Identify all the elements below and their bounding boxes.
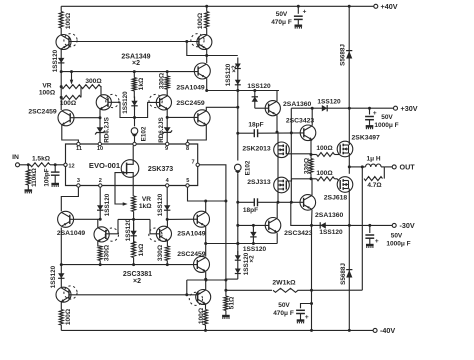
svg-text:+: + <box>303 9 307 16</box>
wire 2SA1360 base <box>255 107 269 109</box>
svg-text:×2: ×2 <box>231 65 238 73</box>
wire y243.5 branch <box>206 242 278 245</box>
svg-text:1SS120: 1SS120 <box>50 265 57 288</box>
resistor 1kohm center-bottom <box>132 242 145 265</box>
svg-text:50V: 50V <box>381 114 393 121</box>
svg-text:+: + <box>375 238 379 245</box>
svg-text:4.7Ω: 4.7Ω <box>367 182 381 189</box>
wire 2SK373 gate <box>115 173 128 206</box>
capacitor 1000uF +30V <box>365 108 377 125</box>
wire 2SA1049R2 collector <box>204 200 207 213</box>
terminal -40V <box>373 326 395 335</box>
transistor cascode right <box>149 94 171 110</box>
label S5688J bottom <box>340 263 347 285</box>
wire 2SC2459LR collector <box>204 272 207 290</box>
wire 2SC2459R emitter to pin8 <box>188 125 207 142</box>
svg-text:+30V: +30V <box>401 104 418 113</box>
resistor 4.7ohm <box>362 167 384 189</box>
svg-text:E102: E102 <box>244 160 251 175</box>
svg-text:2SC3381: 2SC3381 <box>123 271 152 278</box>
svg-text:RD6.2JS: RD6.2JS <box>104 117 111 143</box>
resistor 1kohm center-top <box>132 72 145 98</box>
svg-text:8: 8 <box>186 146 189 152</box>
resistor 2W1kohm <box>226 279 362 292</box>
transistor 2SC2459 (upper right) <box>176 100 210 126</box>
svg-text:+: + <box>373 110 377 117</box>
IC pin 12 <box>64 163 75 169</box>
wire 1360L collector <box>311 179 313 195</box>
terminal +40V <box>374 2 398 11</box>
IC pin E102 <box>133 142 136 145</box>
wire K2013 drain <box>277 132 279 146</box>
transistor 2SA1360 upper <box>265 101 311 116</box>
svg-text:300Ω: 300Ω <box>85 78 102 85</box>
wire 2SA1049R collector <box>205 78 208 92</box>
label 1SS120 +30V <box>317 99 341 106</box>
wire to K3497 gate <box>335 154 340 156</box>
wire 300 to cascode collector <box>100 87 102 95</box>
svg-text:-30V: -30V <box>400 221 415 230</box>
svg-text:2SC3423: 2SC3423 <box>284 230 313 237</box>
transistor 2SA1349-a (top-left) <box>56 34 77 50</box>
svg-text:S5688J: S5688J <box>339 44 346 66</box>
svg-text:2SA1360: 2SA1360 <box>283 101 312 108</box>
wire OUT <box>384 166 392 168</box>
capacitor 100pF <box>43 165 59 187</box>
capacitor 470uF bottom <box>296 304 311 322</box>
ground 470uF top <box>295 24 303 28</box>
svg-text:100Ω: 100Ω <box>197 12 204 29</box>
svg-text:100Ω: 100Ω <box>316 145 333 152</box>
diode 1SS120 pin4 <box>157 187 170 219</box>
svg-text:+: + <box>305 314 309 321</box>
wire input <box>20 164 31 166</box>
transistor 2SA1360 lower <box>300 195 344 219</box>
IC pin 8 <box>186 142 189 152</box>
wire 2SA1360 emitter <box>276 115 279 133</box>
svg-text:2SJ313: 2SJ313 <box>247 179 271 186</box>
svg-text:1SS120: 1SS120 <box>125 218 132 241</box>
svg-text:×2: ×2 <box>248 255 255 263</box>
wire bus mid <box>236 90 239 161</box>
wire VAS to clamp <box>291 202 313 227</box>
wire bus to NFB node <box>226 278 238 280</box>
resistor 100ohm bottom-left <box>59 302 72 330</box>
wire cascode-left base <box>108 102 135 117</box>
svg-text:330Ω: 330Ω <box>157 244 164 261</box>
svg-text:×2: ×2 <box>133 278 141 285</box>
svg-text:2SC2459: 2SC2459 <box>177 251 206 258</box>
transistor 2SC2459 (upper left) <box>28 109 74 126</box>
transistor power bottom-right <box>189 290 210 306</box>
wire 186 drop <box>186 280 188 295</box>
label 1SS120 -30V <box>319 229 343 236</box>
wire casc-lr base <box>150 219 160 233</box>
svg-text:1SS120: 1SS120 <box>157 193 164 216</box>
svg-text:5: 5 <box>186 178 189 184</box>
JFET 2SK373 <box>121 160 173 178</box>
wire y279.3 line <box>187 279 228 282</box>
diode 1SS120 center-top <box>122 91 138 118</box>
terminal OUT <box>392 163 415 172</box>
diode 1SS120 top-left <box>52 49 65 72</box>
wire casc-lr top <box>166 218 169 227</box>
resistor 100ohm bottom-right <box>198 304 208 330</box>
label S5688J top <box>339 44 346 66</box>
ground 110k <box>25 189 33 193</box>
svg-text:2SK3497: 2SK3497 <box>352 135 381 142</box>
wire +30V branch down <box>290 108 292 133</box>
svg-text:18pF: 18pF <box>248 122 263 129</box>
diode 1SS120 3423L <box>243 225 267 252</box>
wire pin3 to 2SA1049L <box>61 187 78 211</box>
svg-text:1kΩ: 1kΩ <box>139 203 152 210</box>
wire 18pF to bar <box>259 131 304 134</box>
wire OUT line <box>349 165 364 168</box>
label 1000uF -30V <box>386 233 410 248</box>
wire 2SA1049L emitter <box>60 228 62 265</box>
wire pin5 right <box>188 187 226 201</box>
wire VR wiper <box>70 72 73 85</box>
inductor 1uH <box>362 156 384 167</box>
IC pin 2 <box>99 178 102 187</box>
svg-text:1SS120: 1SS120 <box>243 246 267 253</box>
wire bus 291 link <box>290 133 292 202</box>
wire J313 gate <box>286 179 311 181</box>
IC pin 4 <box>166 178 170 187</box>
wire casc-lr bottom <box>166 241 168 246</box>
resistor 100ohm top-left <box>59 6 72 35</box>
wire K2013 gate <box>286 153 311 155</box>
wire NFB from output <box>361 179 363 291</box>
svg-text:100Ω: 100Ω <box>316 170 333 177</box>
transistor cascode lower-right <box>149 226 172 241</box>
svg-text:E102: E102 <box>141 126 148 141</box>
resistor 330ohm ladder <box>303 155 313 181</box>
svg-text:330Ω: 330Ω <box>103 244 110 261</box>
wire 3423L collector <box>276 202 278 218</box>
svg-text:51Ω: 51Ω <box>228 296 235 309</box>
wire emitter to node <box>206 50 208 64</box>
resistor 300ohm <box>81 78 102 88</box>
diode 1SS120 x2 top pair <box>225 58 241 91</box>
MOSFET 2SJ313 <box>247 177 289 193</box>
wire 2SK373 drain <box>132 146 134 160</box>
CRD E102 lower <box>235 160 252 255</box>
terminal +30V <box>394 104 418 113</box>
MOSFET 2SJ618 <box>324 177 353 202</box>
svg-text:VR: VR <box>142 196 151 203</box>
transistor 2SA1049 (lower left) <box>57 211 86 237</box>
svg-text:50V: 50V <box>278 302 290 309</box>
wire cascode-right collector <box>166 89 168 95</box>
svg-text:100Ω: 100Ω <box>60 100 77 107</box>
label 2SC3381 x2 <box>123 271 152 285</box>
wire 202 line <box>274 201 304 204</box>
svg-text:330Ω: 330Ω <box>158 72 165 89</box>
svg-text:1.5kΩ: 1.5kΩ <box>32 155 51 162</box>
wire J313 source <box>277 189 280 204</box>
ground 1000uF -30V <box>366 244 374 248</box>
wire base bus 2SA1349 pair <box>69 40 199 43</box>
capacitor 18pF upper <box>253 129 258 137</box>
wire y264.6 line <box>60 263 198 266</box>
svg-text:1SS120: 1SS120 <box>247 83 271 90</box>
svg-text:+40V: +40V <box>381 2 398 11</box>
wire +30V line <box>291 105 393 111</box>
wire 2SK373 source <box>132 177 134 196</box>
diode 1SS120 center-bottom <box>125 218 137 244</box>
svg-text:100pF: 100pF <box>43 168 50 186</box>
wire 1360L emitter <box>311 210 314 226</box>
wire base bus bottom pair <box>69 293 198 296</box>
transistor 2SC3423 lower <box>265 218 312 237</box>
wire base bus 3423 <box>238 132 254 134</box>
IC EVO-001 box <box>66 144 198 186</box>
svg-text:470μ F: 470μ F <box>273 310 294 317</box>
resistor 1.5kohm <box>27 155 64 167</box>
svg-text:100Ω: 100Ω <box>39 90 56 97</box>
resistor 100ohm (parallel VR) <box>60 95 81 107</box>
wire node to center <box>118 218 150 221</box>
wire node to 1SS120x2 top <box>207 55 238 57</box>
svg-text:18pF: 18pF <box>243 207 258 214</box>
ground 100pF <box>51 183 59 187</box>
svg-text:2SK2013: 2SK2013 <box>242 146 271 153</box>
diode S5688J top <box>346 6 352 108</box>
wire 2SC2459L emitter to pin11 <box>62 125 79 142</box>
wire 2SC2459R collector <box>206 106 239 111</box>
svg-text:50V: 50V <box>391 233 403 240</box>
wire 2SC2459R base <box>167 116 198 118</box>
svg-text:7: 7 <box>191 160 194 166</box>
VR 100ohm <box>39 83 81 97</box>
svg-text:1000μ F: 1000μ F <box>374 122 398 129</box>
capacitor 1000uF -30V <box>365 225 379 245</box>
svg-text:2SC2459: 2SC2459 <box>176 100 205 107</box>
resistor 51ohm <box>224 290 236 314</box>
resistor 100ohm top-right <box>197 6 209 35</box>
transistor 2SA1049 (upper right) <box>176 63 210 91</box>
transistor 2SC3381-power bottom-left <box>56 286 77 302</box>
svg-text:-40V: -40V <box>380 326 395 335</box>
wire -30V line <box>312 222 393 228</box>
resistor 330ohm lower-right <box>157 244 169 264</box>
wire 3423L emitter <box>276 233 278 243</box>
VR 1kohm lower <box>132 196 153 220</box>
svg-text:2SC3423: 2SC3423 <box>286 117 315 124</box>
zener RD6.2JS left <box>95 117 111 143</box>
wire K3497 drain <box>348 108 350 145</box>
svg-text:50V: 50V <box>276 11 288 18</box>
transistor 2SA1049 (lower right) <box>177 211 209 237</box>
wire 2SA1049R2 emitter chain <box>204 227 207 257</box>
wire cascode-right base <box>133 102 160 119</box>
wire cascode-left emitter <box>99 109 102 119</box>
resistor 330ohm lower-left <box>98 244 110 264</box>
wire +40V rail <box>61 5 376 8</box>
IC pin 7 <box>191 160 199 167</box>
MOSFET 2SK3497 <box>337 135 380 157</box>
diode 1SS120 vertical up <box>247 83 271 108</box>
wire cascode-right emitter <box>166 109 169 119</box>
IC pin 5 <box>186 178 190 187</box>
label 470uF top <box>271 11 292 26</box>
diode 1SS120 pin2 <box>97 187 111 219</box>
svg-text:10: 10 <box>97 146 103 152</box>
MOSFET 2SK2013 <box>242 142 289 158</box>
wire K3497 source <box>348 153 351 174</box>
label EVO-001 <box>89 161 121 170</box>
wire 3423 emitter <box>310 140 313 156</box>
wire pin7 right <box>199 165 227 203</box>
IC pin 11 <box>76 142 82 152</box>
svg-text:2SK373: 2SK373 <box>148 166 173 173</box>
svg-text:1μ H: 1μ H <box>366 156 380 163</box>
wire 2SA1360 collector <box>277 91 279 102</box>
ground 51ohm <box>222 315 230 319</box>
svg-text:OUT: OUT <box>400 163 416 172</box>
label 470uF bottom <box>273 302 294 317</box>
svg-text:1SS120: 1SS120 <box>319 229 343 236</box>
svg-text:2SA1049: 2SA1049 <box>177 231 206 238</box>
svg-text:12: 12 <box>68 163 74 169</box>
svg-text:IN: IN <box>12 154 19 161</box>
wire y71.6 line <box>60 70 198 73</box>
transistor cascode lower-left <box>94 227 119 242</box>
svg-text:EVO-001: EVO-001 <box>89 161 121 170</box>
svg-text:470μ F: 470μ F <box>271 19 292 26</box>
svg-text:2SA1049: 2SA1049 <box>176 84 205 91</box>
wire 2SA1349-b base-emitter link <box>187 42 208 58</box>
ground 1000uF +30V <box>366 125 374 129</box>
wire 2SC2459L base <box>70 117 100 119</box>
svg-text:11: 11 <box>76 146 82 152</box>
svg-text:VR: VR <box>42 83 51 90</box>
label 2SA1349 x2 <box>121 53 150 67</box>
wire -40V rail <box>61 329 373 332</box>
wire 3423 collector <box>311 107 314 126</box>
wire 2SA1049R2 base <box>167 218 197 220</box>
wire casc-ll top <box>97 219 99 227</box>
svg-text:1SS120: 1SS120 <box>52 49 59 72</box>
ground 470uF bottom <box>297 319 305 323</box>
diode 1SS120 bottom-left <box>50 265 65 289</box>
svg-text:2: 2 <box>99 178 102 184</box>
wire left column <box>60 72 63 110</box>
terminal -30V <box>392 221 415 230</box>
IC pin 9 <box>165 142 169 152</box>
svg-text:2W1kΩ: 2W1kΩ <box>272 279 296 286</box>
capacitor 470uF top <box>294 6 307 24</box>
wire casc-ll base <box>106 219 118 233</box>
svg-text:100Ω: 100Ω <box>65 308 72 325</box>
CRD E102 top <box>131 118 147 143</box>
svg-text:2SJ618: 2SJ618 <box>324 195 348 202</box>
svg-text:RD6.2JS: RD6.2JS <box>158 117 165 143</box>
transistor 2SC2459 (lower right) <box>177 251 209 273</box>
svg-text:100Ω: 100Ω <box>65 12 72 29</box>
transistor 2SC3423 upper <box>286 117 316 140</box>
IC pin 3 <box>77 178 80 187</box>
wire casc-ll bottom <box>98 242 100 247</box>
wire K2013-J313 link <box>277 154 279 181</box>
transistor cascode left <box>96 94 119 110</box>
svg-text:9: 9 <box>165 146 168 152</box>
IC pin 10 <box>97 142 103 152</box>
wire to J618 gate <box>335 179 339 181</box>
label 1000uF +30V <box>374 114 398 129</box>
wire 311 column <box>310 225 313 330</box>
zener RD6.2JS right <box>158 117 172 143</box>
capacitor 18pF lower <box>238 198 274 214</box>
diode S5688J bottom <box>346 225 352 330</box>
svg-text:S5688J: S5688J <box>340 263 347 285</box>
wire 3423L base <box>236 224 268 227</box>
svg-text:2SA1360: 2SA1360 <box>315 212 344 219</box>
diode 1SS120 x2 bottom pair <box>235 251 256 279</box>
svg-text:1SS120: 1SS120 <box>104 193 111 216</box>
wire y90.5 line <box>207 89 279 92</box>
wire NFB column <box>224 201 227 292</box>
svg-text:330Ω: 330Ω <box>303 157 310 174</box>
svg-text:1kΩ: 1kΩ <box>138 243 145 256</box>
svg-text:1SS120: 1SS120 <box>122 91 129 114</box>
svg-text:1SS120: 1SS120 <box>317 99 341 106</box>
wire 2SA1049L base <box>70 218 102 221</box>
resistor 100ohm gate upper <box>311 145 335 156</box>
terminal IN <box>12 154 19 167</box>
wire VR right link <box>80 87 82 98</box>
svg-text:1kΩ: 1kΩ <box>138 77 145 90</box>
svg-text:110kΩ: 110kΩ <box>31 168 38 187</box>
svg-text:×2: ×2 <box>132 60 140 67</box>
resistor 100ohm gate lower <box>311 170 335 181</box>
resistor 110kohm <box>26 165 38 189</box>
svg-text:2SC2459: 2SC2459 <box>28 109 57 116</box>
resistor 330ohm center-top <box>158 72 169 90</box>
svg-text:100Ω: 100Ω <box>198 307 205 324</box>
wire J618 drain <box>348 189 350 226</box>
transistor 2SA1349-b (top-right) <box>191 34 212 50</box>
label 18pF upper <box>248 122 263 129</box>
svg-text:3: 3 <box>77 178 80 184</box>
svg-text:1000μ F: 1000μ F <box>386 241 410 248</box>
